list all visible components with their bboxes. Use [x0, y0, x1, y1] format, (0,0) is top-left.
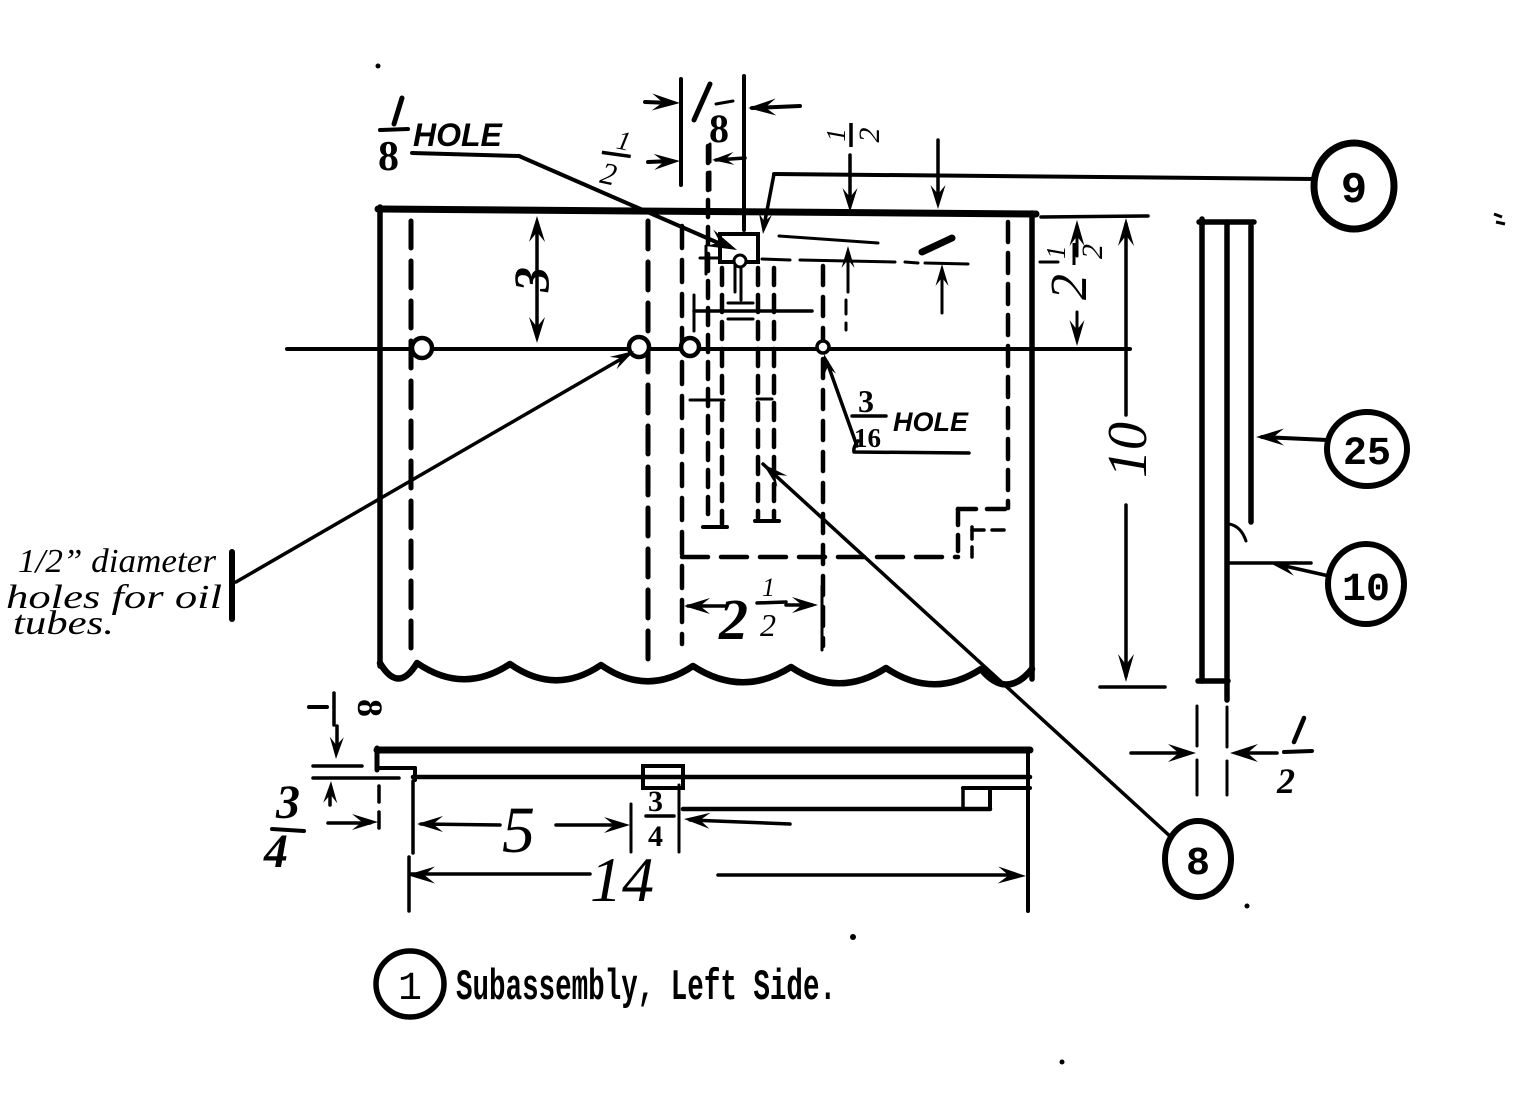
arrow shaft left a	[752, 106, 800, 108]
ext line x=744	[742, 76, 746, 230]
balloon 8 leader line	[763, 464, 1172, 838]
svg-text:2: 2	[1041, 274, 1098, 300]
svg-text:8: 8	[378, 134, 399, 180]
speck	[850, 934, 856, 940]
half dim right shaft	[1240, 751, 1277, 755]
svg-text:8: 8	[350, 699, 390, 717]
ext x=413	[411, 781, 415, 853]
svg-text:25: 25	[1343, 432, 1391, 477]
leader 9 arrowhead	[759, 213, 772, 234]
speck	[1245, 904, 1250, 909]
tick shaft up-arrow b	[941, 270, 944, 313]
dim 3 shaft	[535, 224, 539, 335]
balloon 10 leader horizontal	[1227, 561, 1311, 565]
speck mark top right	[1494, 214, 1505, 224]
half dim left shaft	[1131, 751, 1186, 755]
speck	[376, 64, 381, 69]
rot 1/8: digit 1	[309, 705, 327, 709]
ext x=679	[678, 785, 681, 852]
hidden outline x=1008	[1006, 222, 1011, 508]
svg-text:8: 8	[709, 106, 729, 151]
2.5 dim shaft right	[786, 603, 812, 607]
dim 10 up arrowhead	[1118, 218, 1134, 246]
arrow shaft right a	[645, 102, 672, 103]
svg-text:2: 2	[853, 128, 886, 143]
3/16 leader	[827, 362, 857, 446]
slot bottom cap left	[703, 525, 727, 529]
2.5v shaft bottom	[1076, 312, 1079, 338]
balloon 10 circle	[1328, 544, 1404, 624]
rib seam vert	[961, 788, 965, 809]
dimension text 1/2 rotated	[821, 123, 886, 147]
rot 1/8: bar	[332, 693, 336, 725]
bottom view tab	[643, 766, 683, 788]
HOLE underline	[412, 153, 519, 156]
half dim right-point arrowhead	[1168, 744, 1196, 762]
mid 3/4: bar	[646, 814, 674, 818]
1/8 label: digit 1	[394, 98, 402, 124]
clip line b	[740, 262, 743, 292]
hook line y=400	[690, 399, 724, 402]
balloon 25 arrowhead	[1256, 429, 1284, 446]
notch tick lower	[313, 776, 399, 780]
hidden outline jog vert	[956, 509, 961, 557]
down arrow shaft b	[936, 140, 940, 200]
svg-text:2: 2	[1276, 761, 1295, 801]
balloon 9 circle	[1314, 143, 1394, 229]
svg-text:1: 1	[1041, 246, 1071, 260]
svg-text:5: 5	[502, 794, 535, 867]
dim 14 shaft right	[718, 873, 1016, 877]
2.5v down arrowhead	[1070, 320, 1085, 346]
rib right top line	[963, 786, 1030, 790]
tick short a	[728, 302, 753, 305]
leader to clip	[519, 156, 723, 245]
bottom view right edge / ext	[1026, 750, 1030, 911]
rib step vert	[988, 788, 992, 809]
side view right line	[1248, 226, 1254, 522]
handwritten 1 (dim)	[922, 238, 952, 252]
half text: bar	[1284, 751, 1312, 752]
svg-text:2: 2	[1076, 244, 1109, 259]
note leader arrowhead	[610, 351, 634, 369]
ext x=379	[377, 786, 381, 830]
svg-text:tubes.: tubes.	[13, 605, 114, 642]
leader bend down	[764, 174, 774, 226]
arrow shaft left b	[716, 158, 745, 160]
2.5 dim right arrowhead	[792, 597, 818, 613]
dim 5 shaft right	[556, 823, 622, 827]
hidden line x=411	[409, 221, 414, 660]
half text: 1	[1294, 718, 1304, 742]
hidden jog small vert	[970, 527, 974, 557]
bottom view notch step	[413, 768, 417, 780]
dim 3 down arrowhead	[529, 317, 545, 343]
clip plate rectangle	[720, 234, 758, 262]
2.5v rotated text	[1041, 243, 1109, 300]
1/8 down arrowhead	[330, 737, 344, 759]
half dim left-point arrowhead	[1230, 744, 1258, 762]
dim 10 down arrowhead	[1118, 654, 1134, 682]
svg-text:2: 2	[718, 587, 748, 652]
hidden line x=648	[646, 221, 651, 666]
note leader bar	[229, 552, 235, 619]
3/4 up arrow shaft	[328, 790, 332, 805]
mid 3/4 arrow shaft	[690, 820, 790, 824]
bottom view second line	[413, 775, 1030, 780]
arrowhead left b	[712, 152, 734, 165]
hook line b	[757, 398, 772, 401]
speck	[1060, 1060, 1065, 1065]
thin edge line	[779, 236, 878, 243]
ext line bottom y=687	[1100, 685, 1165, 689]
2.5v shaft top	[1076, 228, 1079, 256]
dim 5 left arrowhead	[417, 816, 443, 832]
dim 3 up arrowhead	[529, 216, 545, 242]
dim 5 right arrowhead	[604, 817, 630, 833]
dash-dot line y=262	[762, 259, 1058, 264]
svg-text:1/2” diameter: 1/2” diameter	[18, 543, 217, 580]
svg-text:Subassembly, Left Side.: Subassembly, Left Side.	[456, 963, 836, 1013]
hidden outline jog horiz	[958, 507, 1008, 512]
up arrowhead b	[936, 264, 949, 286]
mid 3/4 arrowhead	[684, 813, 711, 829]
side view break hook	[1229, 524, 1246, 541]
3/16 hole	[817, 341, 829, 353]
1/8 down arrow shaft	[335, 726, 339, 750]
tick shaft up-arrow a	[847, 252, 850, 292]
dimension text 1/2 rotated left	[594, 122, 637, 195]
balloon 25 leader	[1262, 437, 1327, 440]
1/8 label: bar	[380, 129, 408, 130]
side view bottom cap	[1198, 678, 1228, 684]
3/16 leader arrowhead	[823, 354, 836, 377]
svg-text:10: 10	[1097, 422, 1159, 478]
svg-text:3: 3	[858, 383, 874, 419]
balloon 25 circle	[1327, 412, 1407, 486]
ext line x=1227	[1226, 707, 1229, 795]
slot hidden line x=708	[706, 146, 711, 524]
svg-text:4: 4	[263, 825, 288, 878]
tick bar x=694	[693, 295, 696, 331]
ext line top y=216	[1041, 216, 1148, 217]
wavy break line (bottom of front view)	[380, 663, 1032, 685]
arrowhead right b	[654, 154, 680, 170]
3/4 width arrowhead	[352, 814, 378, 830]
svg-text:9: 9	[1341, 166, 1367, 216]
front view top edge	[378, 209, 1036, 214]
front view right edge	[1029, 213, 1035, 679]
horizontal centerline y=349	[287, 347, 1130, 351]
2.5v up arrowhead	[1070, 220, 1085, 246]
3/16: bar	[852, 414, 886, 418]
top 1/8: bar	[716, 101, 733, 104]
down arrowhead a	[843, 188, 858, 212]
balloon 10 leader diag	[1276, 564, 1329, 576]
note leader line	[236, 355, 628, 582]
top 1/8: digit 1	[694, 84, 710, 120]
1/8 hole circle	[734, 255, 746, 267]
3/4 up arrowhead	[323, 781, 337, 803]
front view left edge	[377, 207, 383, 666]
hidden line / ext x=682	[680, 226, 685, 644]
dim 14 left arrowhead	[407, 867, 435, 884]
balloon 8 circle	[1165, 821, 1231, 897]
slot hidden line x=722	[720, 268, 725, 524]
dim 14 right arrowhead	[998, 867, 1026, 884]
ext x=409	[407, 857, 411, 911]
bottom view left edge	[375, 748, 380, 770]
ext line x=1197	[1196, 706, 1199, 795]
oil tube hole left	[412, 338, 432, 358]
svg-text:14: 14	[590, 844, 654, 915]
3/16: underline	[854, 441, 969, 453]
svg-text:16: 16	[854, 423, 881, 453]
arrow shaft right b	[648, 161, 672, 162]
oil tube hole mid	[629, 337, 649, 357]
caption balloon 1	[376, 951, 444, 1017]
rib bottom line	[683, 807, 990, 812]
slot hidden line x=758	[756, 268, 761, 518]
2.5 text: bar	[757, 602, 786, 603]
ext x=631	[630, 804, 633, 852]
slot hidden line x=774	[772, 268, 777, 518]
clip tick bar	[705, 246, 708, 274]
svg-text:10: 10	[1342, 568, 1390, 613]
dim 14 shaft left	[411, 872, 590, 876]
2.5 dim shaft left	[688, 604, 727, 608]
svg-text:HOLE: HOLE	[893, 407, 969, 437]
dash below clip	[740, 268, 743, 300]
2.5 dim left arrowhead	[684, 598, 710, 614]
down arrow shaft a	[848, 155, 852, 203]
svg-text:1: 1	[821, 128, 851, 142]
tick short b	[728, 318, 753, 321]
hole centerline x=823	[821, 266, 826, 646]
up arrowhead a	[842, 246, 855, 268]
svg-text:3: 3	[648, 785, 663, 818]
leader line to balloon 9	[774, 174, 1316, 179]
left 3/4: bar	[272, 829, 304, 831]
svg-text:HOLE: HOLE	[413, 117, 504, 153]
dash tail x=846	[845, 300, 848, 330]
leader arrowhead	[706, 230, 737, 250]
dim 10 shaft upper	[1124, 224, 1128, 415]
3/4 width shaft	[328, 821, 370, 825]
clip line a	[734, 262, 737, 292]
ext segment x=822	[821, 586, 824, 650]
bottom view top line	[377, 747, 1030, 754]
ext line x=710	[709, 144, 712, 196]
hidden jog small horiz	[972, 528, 1008, 532]
down arrowhead b	[931, 185, 946, 209]
balloon 10 arrowhead	[1270, 561, 1297, 576]
side view middle line	[1224, 222, 1230, 700]
tick line y=311	[694, 309, 812, 313]
arrowhead right a	[652, 94, 680, 111]
side view top cap	[1199, 219, 1254, 225]
clip tick	[700, 257, 718, 260]
ext line x=681	[679, 79, 683, 185]
dim 10 shaft lower	[1124, 505, 1128, 676]
svg-text:3: 3	[275, 776, 300, 829]
svg-text:3: 3	[503, 267, 559, 293]
svg-text:1: 1	[762, 573, 775, 602]
arrowhead left a	[748, 99, 776, 116]
balloon 8 arrowhead	[763, 464, 787, 487]
svg-text:2: 2	[760, 607, 776, 643]
dim 5 shaft left	[421, 824, 500, 825]
notch tick upper	[313, 764, 362, 768]
svg-text:8: 8	[1186, 842, 1210, 887]
slot bottom cap right	[755, 519, 779, 523]
hole x=690	[681, 338, 699, 356]
hidden outline bottom y=557	[682, 555, 958, 560]
svg-text:1: 1	[398, 967, 422, 1012]
side view left line	[1199, 219, 1205, 681]
bottom view notch bottom	[377, 766, 415, 770]
